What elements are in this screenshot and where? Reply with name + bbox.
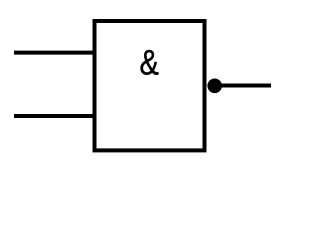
- wire: output Y (right horizontal lead): [221, 84, 271, 88]
- NAND gate U1 body (IEC rectangular AND symbol): [95, 21, 205, 150]
- inversion bubble on NAND output: [207, 79, 222, 94]
- wire: input B (bottom-left horizontal lead): [14, 114, 94, 118]
- wire: input A (top-left horizontal lead): [14, 51, 94, 55]
- svg-text:&: &: [140, 43, 159, 82]
